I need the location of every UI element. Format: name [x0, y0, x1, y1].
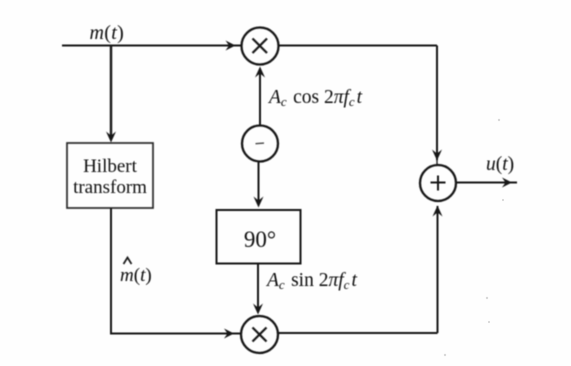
wire: right vertical up to adder — [437, 206, 439, 333]
wire: right vertical down to adder — [436, 46, 438, 161]
wire: M2 output to bottom-right corner — [278, 332, 438, 334]
scan specks — [444, 119, 504, 356]
arrowhead into M2 top — [253, 304, 263, 315]
arrowhead up into M1 — [255, 67, 265, 78]
svg-text:Hilbert: Hilbert — [83, 156, 138, 177]
arrowhead into adder top — [432, 150, 442, 161]
adder (plus circle) — [420, 165, 456, 201]
arrowhead into 90 box — [254, 197, 264, 208]
arrowhead into Hilbert box — [106, 132, 116, 143]
svg-text:90°: 90° — [244, 227, 276, 252]
hat accent over m — [124, 258, 132, 265]
multiplier M1 (top x) — [242, 28, 279, 65]
wire: bottom horizontal to multiplier M2 — [110, 333, 241, 335]
wire: input m(t) horizontal to multiplier M1 — [62, 45, 242, 47]
svg-text:m(t): m(t) — [90, 22, 125, 44]
wire: oscillator down to 90 box — [258, 162, 260, 204]
block: Hilbert transform — [67, 143, 153, 208]
svg-text:m(t): m(t) — [120, 265, 152, 286]
wire: oscillator up to M1 — [259, 69, 261, 126]
oscillator circle (minus) — [242, 126, 278, 162]
arrowhead into M2 — [224, 329, 234, 339]
multiplier M2 (bottom x) — [241, 316, 278, 353]
wire: branch down to Hilbert transform — [110, 46, 112, 140]
arrowhead into adder bottom — [433, 206, 443, 217]
wire: Hilbert output down — [110, 208, 112, 334]
block: 90 degree phase shift — [217, 210, 301, 264]
svg-text:u(t): u(t) — [486, 154, 514, 175]
svg-text:Ac sin 2πfct: Ac sin 2πfct — [265, 270, 357, 292]
arrowhead output — [502, 178, 512, 188]
wire: adder output u(t) — [456, 182, 517, 184]
wire: M1 output to top-right corner — [279, 45, 438, 47]
wire: 90 box down to M2 — [257, 264, 259, 312]
arrowhead into M1 — [226, 41, 236, 51]
svg-text:transform: transform — [73, 177, 147, 198]
